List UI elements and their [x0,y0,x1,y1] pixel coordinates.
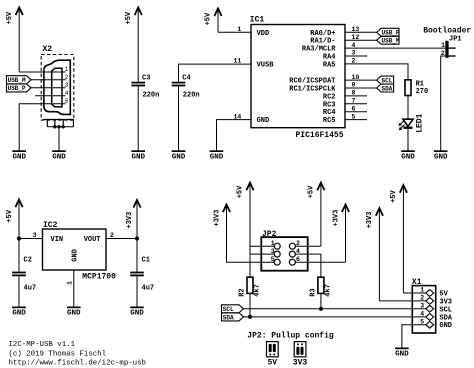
svg-text:4u7: 4u7 [142,285,155,293]
svg-text:2: 2 [296,240,300,247]
svg-text:RA0/D+: RA0/D+ [310,30,335,38]
supply +5V arrow (USB VBUS) [6,8,23,73]
wire C1 top [136,239,138,272]
wire LED1 to GND [407,129,409,151]
resistor R3 4k7 [309,254,332,297]
svg-text:SDA: SDA [439,314,452,322]
net label SDA (bus) [222,313,244,321]
connector X1 [412,278,453,333]
svg-text:GND: GND [12,153,26,161]
svg-text:GND: GND [67,310,81,318]
svg-text:3V3: 3V3 [439,298,452,306]
svg-text:RC1/ICSPCLK: RC1/ICSPCLK [289,86,336,94]
svg-text:1: 1 [66,281,73,285]
svg-text:JP1: JP1 [449,36,462,44]
ground GND (C2) [12,307,26,318]
wire C1 to GND [136,276,138,306]
wire R1 to LED1 [407,96,409,120]
svg-text:GND: GND [395,351,409,359]
svg-text:JP2: Pullup config: JP2: Pullup config [247,331,334,340]
jumper icon 5V [267,342,279,368]
wire IC1 pin14 to GND [217,120,252,151]
svg-text:1: 1 [237,26,241,33]
wire USB_M to X2 pin2 [31,79,66,81]
svg-text:+5V: +5V [6,209,14,222]
svg-text:RA4: RA4 [323,54,336,62]
ground GND (JP1) [434,150,448,161]
ground GND (shield) [52,150,66,161]
svg-text:220n: 220n [183,91,200,99]
resistor R1 270 [405,80,428,96]
net label USB_M (IC1) [377,36,400,44]
svg-text:MCP1700: MCP1700 [82,273,116,282]
svg-text:GND: GND [434,153,448,161]
ground GND (LED1) [401,150,415,161]
microcontroller IC1 PIC16F1455 [250,15,345,140]
svg-text:GND: GND [172,153,186,161]
svg-text:RA1/D-: RA1/D- [310,38,335,46]
wire +3V3 to X1 pin2 [379,300,425,302]
ground GND (X1) [395,348,409,359]
svg-text:I2C-MP-USB v1.1: I2C-MP-USB v1.1 [9,341,76,349]
svg-text:RC0/ICSPDAT: RC0/ICSPDAT [289,78,335,86]
capacitor C3 [131,74,159,99]
supply +3V3 arrow (VOUT) [126,200,141,239]
wire IC1 pin12 [345,39,377,41]
svg-text:VIN: VIN [51,236,64,244]
svg-text:2: 2 [65,74,69,81]
svg-text:USB_P: USB_P [8,85,26,92]
wire X2 pin5 to GND [19,104,65,151]
wire IC1 pin2 to R1 [345,64,408,80]
X2 shield pins [43,120,74,129]
wire IC2 VOUT to +3V3 [106,238,137,240]
jumper icon 3V3 [293,342,308,368]
svg-text:4k7: 4k7 [324,284,332,297]
svg-text:270: 270 [416,88,429,96]
net label SDA (IC1) [377,84,394,92]
net label USB_P (IC1) [377,28,400,36]
svg-text:+5V: +5V [237,185,245,198]
svg-text:RC3: RC3 [323,101,336,109]
svg-text:USB_M: USB_M [8,77,26,84]
wire R2 to JP2 pin3 [250,253,274,255]
resistor R2 4k7 [238,254,261,297]
ground GND (IC2) [67,307,81,318]
svg-text:RA5: RA5 [323,61,336,69]
wire IC1 pin13 [345,31,377,33]
svg-text:+5V: +5V [125,11,133,24]
wire IC1 pin10 [345,79,377,81]
svg-text:GND: GND [131,153,145,161]
svg-text:GND: GND [257,117,270,125]
wire IC2 GND pin to ground [73,270,75,307]
net label SCL (IC1) [377,76,394,84]
svg-text:1: 1 [420,287,424,294]
ground GND (C4) [172,150,186,161]
svg-text:C1: C1 [142,257,150,265]
svg-text:VUSB: VUSB [257,61,275,69]
svg-text:GND: GND [71,249,79,262]
svg-text:3V3: 3V3 [293,358,308,367]
svg-text:+3V3: +3V3 [366,212,374,229]
wire +5V to IC2 VIN [19,238,43,240]
svg-text:6: 6 [296,256,300,263]
svg-text:RA3/MCLR: RA3/MCLR [302,46,336,54]
jumper JP2 pullup selector [261,230,307,271]
node junction R2/SDA [248,315,252,319]
svg-text:R3: R3 [309,288,317,296]
wire IC1 pin5 stub [345,119,367,121]
connector X2 mini-USB [41,45,74,120]
svg-text:+3V3: +3V3 [214,210,222,227]
wire +5V to IC1 pin1 [218,31,251,33]
svg-text:PIC16F1455: PIC16F1455 [296,131,344,140]
svg-text:11: 11 [233,58,241,65]
svg-text:C2: C2 [24,257,32,265]
svg-text:X2: X2 [43,45,53,54]
svg-text:5: 5 [271,256,275,263]
svg-text:+5V: +5V [205,12,213,25]
wire +3V3 to JP2 pin6 [295,261,345,263]
svg-text:SDA: SDA [382,85,393,92]
supply +5V arrow (IC1 VDD) [205,8,222,32]
svg-text:4: 4 [65,90,69,97]
capacitor C2 [12,257,36,293]
svg-text:SCL: SCL [439,306,452,314]
wire IC1 pin3 stub [345,55,367,57]
supply +5V arrow (IC2 VIN) [6,200,23,239]
ground GND (C1) [130,307,144,318]
wire C4 to VUSB net [179,64,252,82]
wire R3 to SCL [320,293,322,308]
supply +3V3 arrow (X1) [366,208,383,301]
ground GND (USB) [12,150,26,161]
wire VBUS to X2 pin1 [19,71,65,73]
svg-text:+5V: +5V [390,189,398,202]
ground GND (C3) [131,150,145,161]
wire C4 to GND [178,86,180,150]
supply +5V arrow (C3) [125,8,142,82]
supply +3V3 arrow (JP2 left) [214,205,231,263]
ground GND (IC1) [210,150,224,161]
svg-text:3: 3 [271,248,275,255]
net label USB_M [7,76,32,85]
svg-text:RC4: RC4 [323,109,336,117]
wire SCL bus [244,308,426,310]
svg-text:(c) 2019 Thomas Fischl: (c) 2019 Thomas Fischl [9,350,107,358]
svg-text:RC2: RC2 [323,93,336,101]
wire IC1 pin9 [345,87,377,89]
node junction VOUT/C1 [135,236,139,240]
svg-text:SCL: SCL [223,306,234,313]
svg-text:+5V: +5V [307,185,315,198]
wire R3 to JP2 pin4 [295,253,321,255]
svg-text:R2: R2 [238,288,246,296]
LED LED1 [398,113,424,132]
wire IC1 pin4 MCLR to JP1 [345,47,445,49]
svg-text:4k7: 4k7 [253,284,261,297]
svg-text:LED1: LED1 [416,113,425,132]
net label USB_P [7,84,32,92]
voltage regulator IC2 MCP1700 [43,221,117,282]
wire IC1 pin8 stub [345,95,367,97]
wire +3V3 to JP2 pin5 [227,261,275,263]
svg-text:220n: 220n [143,91,160,99]
svg-text:VDD: VDD [257,30,270,38]
svg-text:2: 2 [420,295,424,302]
svg-text:+3V3: +3V3 [333,210,341,227]
svg-text:1: 1 [441,42,445,49]
svg-text:USB_M: USB_M [382,38,400,45]
net label SCL (bus) [222,305,244,313]
node junction R3/SCL [319,307,323,311]
node junction VIN/C2 [17,236,21,240]
supply +5V arrow (X1) [390,185,407,293]
wire IC1 pin7 stub [345,103,367,105]
svg-text:4: 4 [420,311,424,318]
svg-text:GND: GND [401,153,415,161]
svg-text:1: 1 [65,66,69,73]
svg-text:VOUT: VOUT [84,236,101,244]
svg-text:3: 3 [65,82,69,89]
wire X2 pin4 stub [35,95,66,97]
wire +5V to JP2 pin2 [295,245,321,247]
svg-text:3: 3 [33,232,37,239]
wire JP1 pin2 to GND [441,56,446,150]
svg-text:http://www.fischl.de/i2c-mp-us: http://www.fischl.de/i2c-mp-usb [9,360,147,368]
text title block [9,341,147,368]
svg-text:GND: GND [439,322,452,330]
svg-text:C4: C4 [182,74,190,82]
supply +5V arrow (JP2 right) [307,183,324,247]
capacitor C4 [172,74,200,99]
svg-text:5V: 5V [267,358,277,367]
svg-text:SDA: SDA [223,314,234,321]
wire +5V to X1 pin1 [403,292,425,294]
supply +3V3 arrow (JP2 right) [333,205,350,263]
svg-text:+5V: +5V [6,11,14,24]
svg-text:GND: GND [12,310,26,318]
svg-text:C3: C3 [142,74,150,82]
wire X1 pin5 to GND [402,325,426,348]
wire USB_P to X2 pin3 [31,87,66,89]
svg-text:4u7: 4u7 [24,285,37,293]
svg-text:1: 1 [271,240,275,247]
svg-text:5V: 5V [439,291,448,299]
svg-text:IC1: IC1 [250,15,265,24]
svg-text:RC5: RC5 [323,117,336,125]
wire shield to GND [58,127,60,151]
svg-text:GND: GND [130,310,144,318]
wire C2 top [18,239,20,272]
wire R2 to SDA [249,293,251,317]
supply +5V arrow (JP2 left) [237,183,254,255]
svg-text:3: 3 [420,303,424,310]
wire C2 to GND [18,276,20,306]
jumper JP1 [441,36,462,58]
svg-text:Bootloader: Bootloader [423,26,471,35]
wire IC1 pin6 stub [345,111,367,113]
svg-text:GND: GND [52,153,66,161]
capacitor C1 [130,257,154,293]
wire C3 to GND [137,86,139,150]
svg-text:5: 5 [65,98,69,105]
wire +5V to JP2 pin1 [250,245,274,247]
svg-text:+3V3: +3V3 [126,212,134,229]
svg-text:4: 4 [296,248,300,255]
wire SDA bus [244,316,426,318]
svg-text:GND: GND [210,153,224,161]
